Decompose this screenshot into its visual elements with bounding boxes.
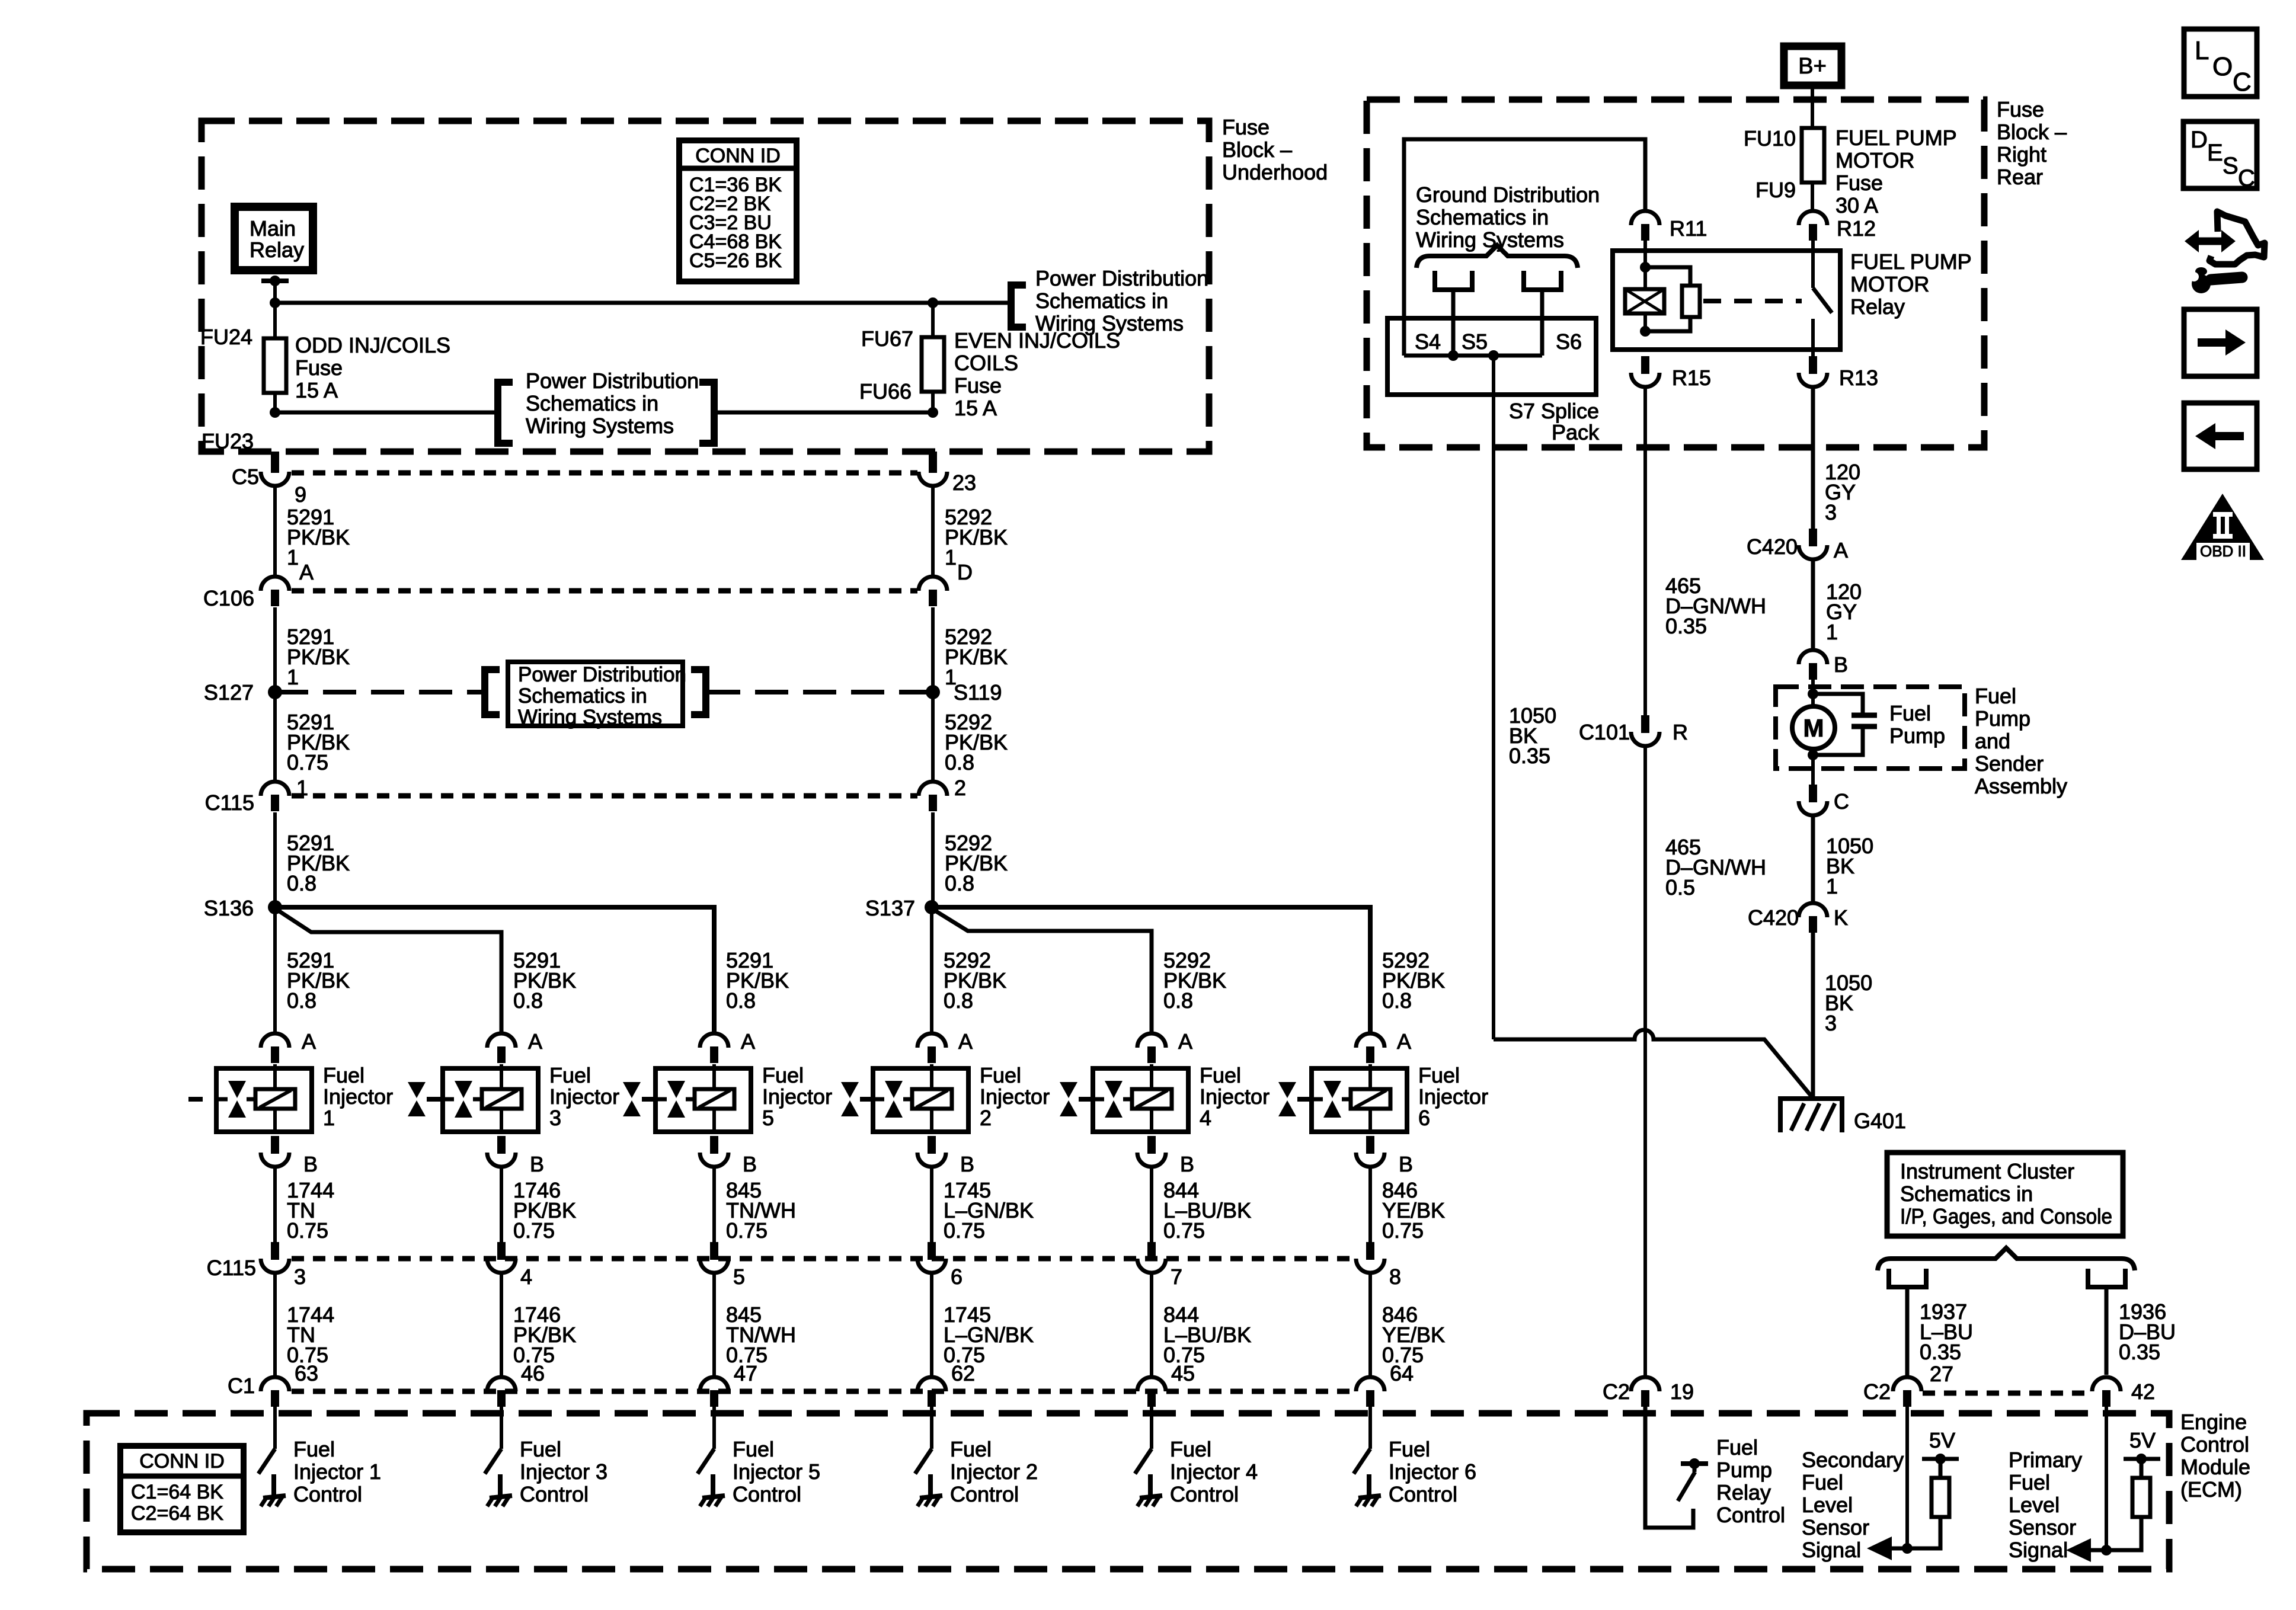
svg-text:K: K (1834, 905, 1848, 930)
svg-text:Instrument Cluster: Instrument Cluster (1900, 1159, 2074, 1183)
fuel injector 4 (1093, 1068, 1188, 1132)
svg-text:FU10: FU10 (1744, 126, 1796, 151)
svg-text:A: A (528, 1029, 542, 1054)
svg-text:E: E (2207, 140, 2223, 166)
svg-text:Block –: Block – (1222, 137, 1292, 162)
wire injector 2 B to C115 (930, 1167, 933, 1242)
svg-text:Injector: Injector (980, 1084, 1050, 1109)
svg-text:0.75: 0.75 (1382, 1218, 1424, 1243)
svg-text:Schematics in: Schematics in (1900, 1182, 2033, 1206)
valve symbol injector 1 (228, 1081, 246, 1098)
splice S137 (925, 900, 939, 914)
svg-text:Fuel: Fuel (1889, 701, 1931, 725)
check valve symbol between injectors (4) (1278, 1082, 1296, 1098)
wire injector 4 B to C115 (1150, 1167, 1153, 1242)
bracket left (S127 ref) (485, 670, 500, 715)
svg-text:B: B (1834, 652, 1848, 677)
svg-text:3: 3 (1825, 1011, 1837, 1035)
svg-text:C: C (2238, 165, 2255, 191)
ground fuel injector 5 control (711, 1474, 715, 1496)
svg-text:0.8: 0.8 (726, 988, 756, 1013)
switch fuel injector 4 control (1150, 1407, 1153, 1449)
svg-text:G401: G401 (1854, 1109, 1906, 1133)
relay coil (1643, 241, 1647, 289)
fuel pump motor relay box (1613, 251, 1840, 350)
svg-text:FUEL PUMP: FUEL PUMP (1835, 126, 1957, 150)
wire injector 3 B to C115 (500, 1167, 503, 1242)
svg-text:47: 47 (734, 1361, 757, 1385)
svg-text:Fuel: Fuel (733, 1437, 774, 1461)
connector A injector 2 (917, 1033, 946, 1048)
fuel pump and sender dashed box (1776, 687, 1965, 769)
svg-text:45: 45 (1171, 1361, 1195, 1385)
wire C115 7 to C1 45 (1150, 1273, 1153, 1377)
svg-text:C1=64 BK: C1=64 BK (131, 1481, 223, 1503)
svg-text:Block –: Block – (1997, 120, 2067, 144)
connector C115 lower row dotted line (292, 1256, 1357, 1262)
svg-text:Fuel: Fuel (762, 1063, 804, 1087)
wire C106 to S127 (273, 607, 277, 692)
connector C420 pin A (1809, 529, 1817, 546)
icon DESC box (2183, 121, 2257, 188)
fuel pump motor M (1792, 706, 1835, 749)
svg-text:42: 42 (2131, 1379, 2155, 1404)
svg-text:Injector 6: Injector 6 (1389, 1459, 1476, 1484)
svg-text:Pump: Pump (1975, 706, 2030, 731)
connector C1 pin 64 (1356, 1377, 1384, 1391)
wire S7 to ground with hop (1494, 1030, 1812, 1097)
svg-text:B: B (1180, 1152, 1194, 1176)
brace ground distribution (1416, 245, 1578, 268)
B+ box (1784, 46, 1841, 85)
svg-text:Fuse: Fuse (295, 356, 343, 380)
ECM dashed box (87, 1413, 2169, 1569)
node junction at even fuse top (928, 297, 938, 308)
wire S137 branch to injector4 (935, 911, 1152, 1033)
svg-text:Power Distribution: Power Distribution (518, 663, 686, 686)
svg-text:Power Distribution: Power Distribution (526, 369, 699, 393)
svg-text:23: 23 (952, 470, 976, 495)
svg-text:0.5: 0.5 (1665, 875, 1695, 900)
connector C115 row dotted line (292, 793, 917, 799)
svg-text:A: A (299, 560, 314, 584)
svg-text:0.8: 0.8 (945, 750, 974, 774)
svg-text:6: 6 (1418, 1106, 1430, 1130)
svg-text:Control: Control (733, 1482, 801, 1506)
svg-text:Fuel: Fuel (520, 1437, 561, 1461)
wire C5 to C106 (273, 486, 277, 577)
wire S137 down to injector2 (930, 907, 933, 1033)
svg-text:C115: C115 (207, 1256, 256, 1280)
svg-text:MOTOR: MOTOR (1850, 272, 1929, 296)
wire splice pack loop to R11 (1404, 139, 1645, 356)
svg-text:Relay: Relay (1850, 295, 1905, 319)
svg-text:Pump: Pump (1889, 724, 1945, 748)
svg-text:Fuel: Fuel (549, 1063, 591, 1087)
svg-text:Fuse: Fuse (1835, 171, 1883, 195)
svg-text:Pack: Pack (1552, 420, 1600, 444)
wire relay to junction (273, 281, 277, 303)
svg-text:A: A (1834, 538, 1848, 562)
arrow secondary signal (1867, 1537, 1892, 1560)
svg-text:Fuel: Fuel (1200, 1063, 1241, 1087)
svg-text:27: 27 (1930, 1362, 1953, 1386)
svg-text:A: A (741, 1029, 755, 1054)
svg-text:15 A: 15 A (954, 396, 997, 420)
solenoid coil injector 1 (255, 1089, 295, 1109)
svg-text:Right: Right (1997, 142, 2046, 167)
splice bus wire (1404, 354, 1542, 358)
svg-text:1: 1 (945, 545, 957, 569)
relay switch (1811, 241, 1815, 288)
svg-text:Fuel: Fuel (1170, 1437, 1211, 1461)
svg-text:Relay: Relay (250, 238, 304, 262)
wire C420 K to ground (1811, 933, 1815, 1100)
svg-text:15 A: 15 A (295, 378, 338, 402)
brace instrument cluster (1878, 1248, 2135, 1270)
icon arrow left box (2184, 403, 2257, 469)
svg-text:5: 5 (733, 1265, 745, 1289)
box power distribution schematics (middle) (508, 662, 683, 726)
svg-text:FU24: FU24 (200, 325, 252, 349)
wire C2 19 into ECM (1645, 1407, 1693, 1528)
svg-text:B+: B+ (1798, 54, 1827, 79)
5V supply bar (primary) (2124, 1457, 2160, 1461)
svg-text:5V: 5V (1929, 1428, 1955, 1452)
svg-text:7: 7 (1171, 1265, 1182, 1289)
pin stub C5 (271, 452, 279, 473)
svg-text:1: 1 (296, 776, 308, 800)
svg-text:Fuel: Fuel (293, 1437, 335, 1461)
fuse block right rear dashed box (1367, 100, 1984, 447)
svg-text:A: A (302, 1029, 316, 1054)
svg-text:4: 4 (1200, 1106, 1211, 1130)
svg-text:Schematics in: Schematics in (526, 391, 658, 415)
wire injector 1 B to C115 (273, 1167, 277, 1242)
connector C115 pin 4 (497, 1242, 506, 1260)
svg-text:5V: 5V (2129, 1428, 2156, 1452)
connector A injector 4 (1137, 1033, 1166, 1048)
connector A injector 5 (700, 1033, 728, 1048)
connector C115 pin 6 (928, 1242, 936, 1260)
svg-text:Control: Control (1170, 1482, 1239, 1506)
bracket right (S119 ref) (691, 670, 706, 715)
svg-text:Injector: Injector (1418, 1084, 1488, 1109)
svg-text:(ECM): (ECM) (2180, 1477, 2242, 1502)
svg-text:0.35: 0.35 (1509, 744, 1550, 768)
svg-text:A: A (1178, 1029, 1192, 1054)
svg-text:Fuel: Fuel (980, 1063, 1021, 1087)
svg-text:C: C (2233, 68, 2252, 97)
svg-text:Ground Distribution: Ground Distribution (1416, 183, 1600, 207)
svg-text:0.8: 0.8 (1382, 988, 1412, 1013)
svg-text:ODD INJ/COILS: ODD INJ/COILS (295, 333, 450, 357)
svg-text:Fuse: Fuse (1222, 115, 1269, 139)
svg-text:S6: S6 (1556, 329, 1582, 354)
wire C115 4 to C1 46 (500, 1273, 503, 1377)
svg-text:Signal: Signal (2009, 1538, 2068, 1562)
node junction even fuse bottom (928, 407, 938, 418)
svg-text:Signal: Signal (1802, 1538, 1861, 1562)
wire bracket to even fuse bottom (714, 411, 933, 415)
svg-text:Wiring Systems: Wiring Systems (526, 414, 674, 438)
svg-text:1: 1 (323, 1106, 335, 1130)
svg-text:Sender: Sender (1975, 751, 2044, 776)
svg-text:Injector 1: Injector 1 (293, 1459, 381, 1484)
connector B injector 4 (1147, 1136, 1156, 1154)
svg-text:1: 1 (287, 665, 299, 689)
svg-text:Main: Main (250, 216, 296, 241)
svg-text:S119: S119 (954, 680, 1002, 705)
svg-text:Fuel: Fuel (1975, 684, 2016, 708)
svg-text:B: B (743, 1152, 757, 1176)
svg-text:S127: S127 (204, 680, 254, 705)
svg-text:I/P, Gages, and Console: I/P, Gages, and Console (1900, 1204, 2112, 1228)
connector C1 pin 45 (1137, 1377, 1166, 1391)
svg-text:0.75: 0.75 (513, 1218, 555, 1243)
svg-text:C115: C115 (205, 790, 254, 815)
connector C115 pin 7 (1147, 1242, 1156, 1260)
connector B injector 5 (710, 1136, 718, 1154)
valve symbol injector 5 (667, 1081, 685, 1098)
fuel injector 3 (443, 1068, 538, 1132)
svg-text:0.8: 0.8 (513, 988, 543, 1013)
svg-text:Engine: Engine (2180, 1410, 2247, 1434)
resistor (secondary) (1932, 1478, 1949, 1517)
svg-text:3: 3 (1825, 500, 1837, 524)
fuse block underhood dashed box (202, 121, 1209, 452)
wire C115 to S136 (273, 812, 277, 907)
svg-text:C5=26 BK: C5=26 BK (689, 249, 782, 272)
fuel injector 2 (873, 1068, 968, 1132)
connector C2 pin 19 (1631, 1377, 1659, 1391)
wire 23 to D (931, 486, 935, 577)
connector C1 row dotted line (292, 1389, 1357, 1394)
wire horizontal feed y511 (275, 301, 933, 305)
connector C115 pin 5 (710, 1242, 718, 1260)
svg-text:1: 1 (287, 545, 299, 569)
wire R13 to C420 A (1811, 387, 1815, 530)
connector B injector 1 (271, 1136, 279, 1154)
svg-text:Relay: Relay (1716, 1480, 1771, 1505)
svg-text:63: 63 (295, 1361, 318, 1385)
check valve symbol between injectors (0) (408, 1082, 426, 1098)
connector B injector 6 (1366, 1136, 1374, 1154)
svg-text:Fuel: Fuel (323, 1063, 364, 1087)
wire C115 6 to C1 62 (930, 1273, 933, 1377)
valve symbol injector 4 (1105, 1081, 1123, 1098)
svg-text:0.8: 0.8 (287, 871, 316, 895)
main relay pin T-bar (261, 279, 289, 283)
connector C115 pin 3 (271, 1242, 279, 1260)
connector C1 pin 63 (261, 1377, 289, 1391)
connector B injector 2 (928, 1136, 936, 1154)
svg-text:Power Distribution: Power Distribution (1035, 266, 1208, 290)
svg-text:M: M (1803, 714, 1824, 742)
dash before injector 1 (188, 1097, 203, 1102)
S7 splice pack box (1387, 318, 1596, 395)
wire injector 5 B to C115 (712, 1167, 716, 1242)
svg-text:2: 2 (954, 776, 966, 800)
svg-text:S5: S5 (1462, 329, 1488, 354)
relay dashed link (1703, 299, 1802, 303)
svg-text:Schematics in: Schematics in (1416, 205, 1549, 229)
svg-text:0.75: 0.75 (1163, 1218, 1205, 1243)
svg-text:8: 8 (1389, 1265, 1401, 1289)
svg-text:Underhood: Underhood (1222, 160, 1328, 184)
ground fuel injector 1 control (271, 1474, 276, 1496)
fuel injector 5 (655, 1068, 751, 1132)
wire C115 8 to C1 64 (1368, 1273, 1372, 1377)
connector C5 pin 9 (261, 472, 289, 486)
svg-text:Injector: Injector (1200, 1084, 1269, 1109)
connector D (919, 577, 947, 591)
svg-text:0.35: 0.35 (1920, 1340, 1961, 1364)
svg-text:6: 6 (951, 1265, 962, 1289)
splice S136 (268, 900, 282, 914)
check valve symbol between injectors (3) (1060, 1082, 1077, 1098)
svg-text:Injector 3: Injector 3 (520, 1459, 607, 1484)
connector C1 pin 47 (700, 1377, 728, 1391)
svg-text:2: 2 (980, 1106, 992, 1130)
svg-text:C2=64 BK: C2=64 BK (131, 1502, 223, 1525)
connector B (pump) (1799, 650, 1827, 664)
connector C420 pin K (1799, 903, 1827, 917)
svg-text:3: 3 (549, 1106, 561, 1130)
svg-text:Control: Control (1716, 1503, 1785, 1527)
svg-text:3: 3 (294, 1265, 306, 1289)
icon OBD II triangle (2181, 494, 2264, 560)
splice S119 (926, 685, 940, 699)
fuel injector 6 (1312, 1068, 1407, 1132)
svg-text:1: 1 (1826, 620, 1838, 644)
wire C115 3 to C1 63 (273, 1273, 277, 1377)
svg-text:19: 19 (1670, 1379, 1694, 1404)
pin stub 23 (929, 452, 937, 473)
wire 2 to S137 (931, 812, 935, 907)
check valve symbol between injectors (2) (841, 1082, 859, 1098)
wire C420 A to conn B (1811, 559, 1815, 650)
connector R12 (1799, 211, 1827, 225)
relay coil core (1645, 267, 1690, 286)
svg-text:62: 62 (951, 1361, 975, 1385)
wire R15 to C101 (1643, 387, 1647, 715)
connector A injector 1 (261, 1033, 289, 1048)
svg-text:and: and (1975, 729, 2010, 753)
svg-text:Fuel: Fuel (1418, 1063, 1460, 1087)
svg-text:O: O (2212, 52, 2233, 81)
svg-text:B: B (1399, 1152, 1413, 1176)
svg-text:A: A (1397, 1029, 1411, 1054)
wire S7 down (1492, 356, 1495, 1039)
svg-text:64: 64 (1390, 1361, 1414, 1385)
svg-text:COILS: COILS (954, 351, 1018, 375)
svg-text:R11: R11 (1670, 216, 1707, 241)
connector A injector 3 (487, 1033, 516, 1048)
connector 23 pin (919, 472, 947, 486)
svg-text:4: 4 (520, 1265, 532, 1289)
icon LOC box (2184, 29, 2257, 97)
svg-text:Schematics in: Schematics in (518, 684, 647, 708)
svg-text:D: D (957, 560, 973, 584)
svg-text:Fuel: Fuel (1389, 1437, 1430, 1461)
connector C106 pin A (261, 577, 289, 591)
pump capacitor branch (1813, 694, 1863, 714)
resistor (primary) (2132, 1478, 2150, 1517)
svg-text:C106: C106 (203, 586, 254, 610)
svg-text:Rear: Rear (1997, 165, 2043, 189)
svg-text:S7: S7 (1509, 399, 1535, 423)
solenoid coil injector 2 (912, 1089, 952, 1109)
connector C1 pin 46 (487, 1377, 516, 1391)
fuse FU24/FU23 ODD INJ/COILS (273, 303, 277, 339)
svg-text:Level: Level (1802, 1493, 1853, 1517)
node junction odd fuse bottom (270, 407, 280, 418)
svg-text:C1: C1 (228, 1374, 255, 1398)
svg-text:B: B (530, 1152, 544, 1176)
connector C5 row dotted line (292, 470, 917, 476)
svg-text:Wiring Systems: Wiring Systems (518, 706, 662, 729)
svg-text:C420: C420 (1748, 905, 1799, 930)
solenoid coil injector 3 (482, 1089, 522, 1109)
svg-text:FU9: FU9 (1755, 178, 1796, 202)
wire B+ to fuse (1811, 89, 1814, 129)
svg-text:L: L (2195, 36, 2209, 65)
dotted line 27 to 42 (1923, 1391, 2091, 1396)
connector R13 (1809, 356, 1817, 374)
wire C to C420 K (1811, 815, 1815, 903)
wire S119 to conn 2 (931, 692, 935, 782)
fuse FU10/FU9 FUEL PUMP MOTOR (1802, 128, 1824, 183)
connector R11 (1631, 211, 1659, 225)
connector C115 pin 1 (261, 782, 289, 796)
icon wrench and arrow (2196, 238, 2224, 245)
valve symbol injector 2 (885, 1081, 903, 1098)
switch fuel injector 1 control (273, 1407, 277, 1449)
fuse FU67/FU66 EVEN INJ/COILS (931, 303, 935, 338)
check valve symbol between injectors (1) (623, 1082, 641, 1098)
cluster pigtail 1 (1889, 1269, 1926, 1287)
ground fuel injector 4 control (1148, 1474, 1153, 1496)
svg-text:0.35: 0.35 (1665, 614, 1707, 638)
ground pigtail 2 (1524, 271, 1561, 290)
svg-text:R: R (1673, 720, 1688, 744)
svg-text:EVEN INJ/COILS: EVEN INJ/COILS (954, 328, 1120, 353)
svg-text:Fuse: Fuse (954, 373, 1002, 398)
connector C101 pin R (1641, 715, 1649, 733)
svg-text:0.75: 0.75 (287, 750, 328, 774)
wire lower horizontal to bracket (275, 411, 497, 415)
svg-text:1: 1 (1826, 874, 1838, 898)
svg-text:C5: C5 (232, 465, 259, 489)
instrument cluster box (1887, 1153, 2123, 1236)
svg-text:Fuel: Fuel (2009, 1470, 2050, 1494)
svg-text:Injector: Injector (323, 1084, 393, 1109)
svg-text:Sensor: Sensor (2009, 1515, 2076, 1539)
svg-text:Injector 4: Injector 4 (1170, 1459, 1258, 1484)
svg-text:C2: C2 (1603, 1379, 1630, 1404)
valve symbol injector 3 (455, 1081, 472, 1098)
svg-text:Fuel: Fuel (1802, 1470, 1843, 1494)
dashed wire bracket to S119 (707, 690, 932, 694)
wire primary fuel level sensor (2105, 1407, 2108, 1550)
svg-text:FUEL PUMP: FUEL PUMP (1850, 249, 1972, 274)
svg-text:Injector 5: Injector 5 (733, 1459, 820, 1484)
svg-text:Injector: Injector (549, 1084, 619, 1109)
switch fuel injector 3 control (500, 1407, 503, 1449)
svg-text:FU67: FU67 (861, 327, 913, 351)
svg-text:30 A: 30 A (1835, 193, 1878, 217)
